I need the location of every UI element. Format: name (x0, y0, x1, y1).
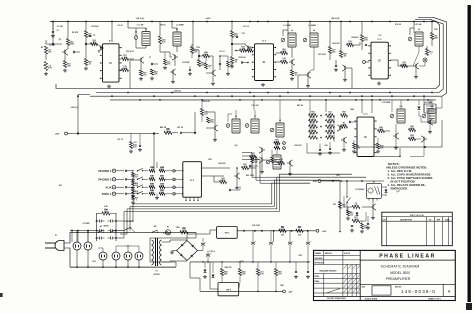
resistor R20 (281, 51, 288, 54)
svg-text:R10 4.7K: R10 4.7K (126, 50, 134, 53)
revision table (382, 212, 453, 246)
transformer T1 (195, 232, 197, 238)
wire top rail second (415, 18, 430, 20)
logo PHASE LINEAR (360, 259, 455, 261)
resistor shunt (132, 181, 135, 186)
svg-text:-20V: -20V (55, 134, 60, 136)
resistor R9 (139, 70, 142, 76)
electrolytic caps bank (251, 241, 255, 243)
wire VR2 connections (190, 262, 200, 292)
svg-text:2.2K: 2.2K (279, 161, 284, 163)
switch pole circle (173, 170, 176, 173)
svg-text:CR1-4: CR1-4 (209, 250, 214, 253)
op-amp IC3 (371, 42, 388, 79)
svg-text:.01: .01 (294, 75, 297, 77)
svg-text:L5 1.8H: L5 1.8H (415, 24, 422, 26)
resistor R40 (164, 131, 172, 134)
svg-text:C7: C7 (149, 57, 151, 59)
wire drops to matrix (325, 100, 327, 112)
svg-text:+: + (210, 253, 211, 255)
wire bridge right (198, 250, 204, 252)
wire right side loop verticals (436, 22, 440, 89)
transistor Q1 (64, 50, 66, 54)
svg-text:R14: R14 (196, 46, 199, 49)
filter cap C40 (201, 242, 205, 244)
svg-text:4-14-76: 4-14-76 (344, 252, 350, 255)
svg-text:1M: 1M (329, 125, 332, 127)
wire secondary to bridge (162, 240, 188, 242)
wire contact block right (116, 230, 124, 232)
svg-text:.047: .047 (67, 65, 71, 68)
resistor R62 (251, 157, 254, 163)
wire +24V top rail (50, 21, 436, 23)
svg-text:4.7K: 4.7K (260, 273, 265, 276)
wire jack (116, 186, 124, 188)
svg-text:R30: R30 (434, 29, 437, 31)
svg-text:L10 18MH: L10 18MH (382, 102, 391, 104)
svg-text:RELEASE STATUS: RELEASE STATUS (320, 270, 337, 273)
jack J3 (112, 186, 115, 189)
wire bridge top to VR1 (187, 230, 217, 241)
svg-text:.0047: .0047 (104, 211, 109, 214)
svg-text:220K: 220K (280, 229, 285, 231)
svg-text:C19 .047: C19 .047 (251, 104, 258, 107)
svg-text:2.2K: 2.2K (380, 148, 385, 150)
outlet SO1 (73, 242, 81, 250)
capacitor C36 (367, 222, 369, 224)
selector pins bottom (185, 197, 187, 200)
bus corners upper left (242, 153, 310, 178)
svg-text:METCH: METCH (325, 253, 332, 255)
svg-text:SW: SW (154, 226, 157, 228)
svg-text:4.7K: 4.7K (410, 127, 415, 130)
switch pole circle (173, 186, 176, 189)
resistor shunt (132, 189, 135, 194)
svg-text:1. ALL RES 1/4 W.: 1. ALL RES 1/4 W. (388, 169, 413, 173)
svg-text:PHASE LINEAR: PHASE LINEAR (379, 254, 436, 260)
svg-text:C45: C45 (298, 254, 301, 257)
resistor R86 (274, 269, 277, 276)
outlet SO5 (124, 252, 132, 260)
wires right of selector (201, 167, 230, 169)
svg-text:.01: .01 (88, 64, 91, 66)
resistor ladder b (159, 169, 165, 172)
cluster mute relay contacts (96, 213, 98, 241)
capacitor C3 (89, 34, 91, 36)
resistor R89 (296, 229, 304, 232)
trimmer C29 (422, 114, 426, 118)
bottom rail -20V (200, 290, 282, 292)
terminal -20V out (283, 290, 286, 293)
cluster relay driver right (429, 100, 431, 104)
svg-text:A: A (448, 289, 451, 293)
switch S3 power (152, 232, 153, 233)
svg-text:L6: L6 (235, 116, 237, 118)
svg-text:SO3: SO3 (92, 261, 96, 263)
wire riser to rail (78, 95, 90, 134)
op-amp IC1 (103, 44, 120, 82)
svg-text:PHONO 1: PHONO 1 (98, 169, 111, 173)
svg-text:220K: 220K (328, 130, 333, 132)
fuse F1 (165, 230, 170, 235)
svg-text:DO NOT SCALE DWG: DO NOT SCALE DWG (327, 297, 346, 300)
svg-text:R13 68K: R13 68K (182, 62, 190, 64)
svg-text:1M: 1M (124, 57, 127, 59)
svg-text:R38 2.2K: R38 2.2K (202, 101, 210, 103)
svg-text:.01: .01 (151, 169, 154, 171)
terminal +10V out (316, 229, 319, 232)
relay K1 (367, 184, 382, 199)
wires tuning cluster (130, 60, 138, 89)
cluster small rc pair (274, 142, 280, 145)
svg-text:2.2K: 2.2K (88, 36, 93, 38)
switch pole circle (173, 178, 176, 181)
svg-text:UNLESS OTHERWISE NOTED:: UNLESS OTHERWISE NOTED: (386, 166, 427, 170)
svg-text:.047: .047 (243, 165, 247, 168)
svg-text:5.6K: 5.6K (364, 40, 369, 42)
capacitor input (124, 193, 126, 195)
svg-text:TAPE 1: TAPE 1 (102, 192, 112, 196)
resistor R88 (279, 229, 287, 232)
svg-text:100K: 100K (355, 148, 360, 150)
resistor R3 (63, 61, 66, 68)
ground input ladder (156, 196, 158, 198)
svg-text:P1: P1 (55, 235, 57, 237)
resistor ladder a (149, 186, 155, 189)
svg-text:.1: .1 (136, 199, 138, 201)
resistor R15 (197, 60, 200, 67)
VR2 input wire (210, 262, 218, 289)
wire vertical x340 (339, 181, 341, 231)
cluster input filter second (85, 22, 87, 31)
svg-text:330: 330 (282, 60, 285, 62)
inductor L2 (173, 32, 181, 46)
switch S1 (98, 232, 99, 233)
cluster right of IC4 (378, 129, 385, 132)
svg-text:C41: C41 (240, 260, 243, 263)
svg-text:+24 V (L): +24 V (L) (136, 17, 145, 20)
svg-text:FINAL: FINAL (315, 280, 320, 283)
wire jack (116, 178, 124, 180)
svg-text:C12: C12 (241, 33, 244, 35)
svg-text:+24V (L): +24V (L) (173, 89, 181, 92)
svg-text:IC: IC (378, 60, 381, 63)
svg-text:330: 330 (135, 185, 138, 187)
svg-text:L4 96MH: L4 96MH (308, 24, 316, 27)
svg-text:R44: R44 (350, 108, 353, 111)
svg-text:SHEET 1 OF 1: SHEET 1 OF 1 (428, 298, 441, 300)
resistor R51 (409, 137, 416, 140)
svg-text:R47 15K: R47 15K (294, 144, 302, 147)
resistor R60 (220, 180, 227, 183)
resistor R16 (227, 61, 230, 67)
diode CR10 (385, 190, 388, 193)
resistor R50 (409, 128, 416, 131)
cluster IC3 left parts (361, 22, 363, 35)
cluster center feed (194, 112, 196, 133)
resistor R32 (401, 64, 408, 67)
svg-text:1M: 1M (343, 56, 346, 58)
svg-text:C40 1000: C40 1000 (252, 224, 260, 227)
selector IC5 (183, 162, 202, 198)
svg-text:L2 96MH: L2 96MH (176, 25, 184, 27)
svg-text:PREAMPLIFIER: PREAMPLIFIER (386, 277, 411, 281)
capacitor input (124, 170, 126, 172)
svg-text:R3 47K: R3 47K (72, 31, 79, 34)
svg-text:Q11: Q11 (234, 145, 237, 147)
svg-text:5.6K: 5.6K (150, 186, 155, 188)
wire -20V run right (321, 180, 384, 182)
svg-text:R61 100K: R61 100K (246, 175, 255, 177)
outlet SO2 (84, 242, 92, 250)
svg-text:L11 96MH: L11 96MH (424, 102, 433, 104)
resistor R14 (203, 54, 210, 57)
scan edge strip right (468, 5, 471, 302)
title block outer (314, 250, 456, 300)
svg-text:100K: 100K (253, 162, 258, 164)
capacitor C7 (150, 63, 152, 65)
transistor Q2 (140, 58, 142, 62)
wire plug to bus (64, 232, 70, 243)
svg-text:Q1: Q1 (59, 39, 61, 41)
title block divider (359, 250, 361, 300)
svg-text:330: 330 (350, 215, 353, 217)
title lower row (360, 283, 455, 285)
svg-text:+10V: +10V (322, 231, 327, 233)
svg-text:220K: 220K (434, 38, 439, 40)
wire mid return right (358, 146, 442, 148)
svg-text:PREL.: PREL. (315, 276, 321, 278)
switch contact (137, 170, 138, 171)
wire riser x274 (273, 231, 275, 241)
svg-text:1M: 1M (161, 178, 164, 180)
trimmer C22 (226, 124, 230, 128)
capacitor C26 (348, 121, 350, 123)
transistor Q20 (429, 120, 431, 124)
capacitor C9 (219, 62, 221, 64)
svg-text:CHECKED: CHECKED (315, 258, 324, 260)
svg-text:4.7K: 4.7K (221, 179, 226, 182)
svg-text:IC: IC (364, 136, 367, 139)
transistor Q5 (212, 71, 214, 75)
svg-text:.047: .047 (278, 273, 282, 276)
trimmer C18 (408, 37, 412, 41)
svg-text:2.2K: 2.2K (275, 141, 280, 143)
wire contact block left (70, 230, 97, 232)
resistor shunt (132, 195, 135, 200)
svg-text:C1: C1 (57, 30, 59, 32)
svg-text:L4: L4 (313, 29, 315, 32)
potentiometer R2 (44, 62, 47, 71)
trimmer C23 (245, 124, 249, 128)
capacitor C20 (179, 132, 181, 134)
svg-text:100K: 100K (248, 49, 253, 51)
svg-text:+24 V (R): +24 V (R) (331, 17, 340, 20)
svg-text:L7: L7 (254, 116, 256, 118)
admin columns (323, 250, 325, 264)
cluster L tuning network 1 (127, 22, 129, 29)
resistor R18 (247, 49, 253, 52)
cap C45 (295, 270, 297, 272)
power top wire (70, 231, 196, 233)
svg-text:.1: .1 (312, 136, 314, 138)
admin rows (314, 254, 361, 256)
transistor Q10 (214, 126, 216, 130)
svg-text:REVISION: REVISION (410, 215, 424, 217)
resistor ladder a (149, 178, 155, 181)
svg-text:100K: 100K (70, 44, 75, 46)
svg-text:L3: L3 (291, 30, 293, 32)
inductor relay coil (424, 104, 436, 113)
svg-text:AUX: AUX (105, 185, 111, 189)
svg-text:4.7K: 4.7K (133, 146, 138, 149)
scan speck left edge (0, 293, 3, 297)
transistor Q4 (172, 70, 174, 74)
wire jack (116, 193, 124, 195)
svg-text:100K: 100K (209, 122, 214, 124)
wire left vertical (52, 22, 54, 45)
resistor R11b (164, 59, 167, 65)
trimmer C13 (281, 38, 285, 42)
svg-text:.0047: .0047 (134, 192, 139, 195)
svg-text:MODEL 3000: MODEL 3000 (390, 271, 410, 275)
transistor Q7 (307, 73, 309, 77)
svg-text:R80: R80 (176, 227, 179, 229)
mid band extra parts (353, 143, 356, 149)
zener CR6 (212, 275, 215, 278)
capacitor C8b (189, 68, 191, 70)
capacitor C35 (351, 224, 353, 226)
svg-text:+: + (205, 242, 206, 244)
svg-text:.1: .1 (299, 229, 301, 231)
wire down from loop right (436, 96, 442, 108)
node dots top rail (52, 21, 54, 23)
op-amp IC4 (357, 117, 374, 156)
svg-text:SIZE: SIZE (362, 286, 365, 288)
capacitor C2 (72, 51, 74, 53)
resistor R84 (238, 269, 241, 276)
svg-text:C21 10: C21 10 (117, 139, 123, 141)
resistor ladder b (159, 192, 165, 195)
resistor R8 (158, 36, 161, 44)
svg-text:VR 1: VR 1 (225, 233, 231, 235)
capacitor C10 (240, 61, 242, 63)
transistor Q6 (291, 60, 293, 64)
capacitor C1 (52, 30, 54, 32)
capacitor input (124, 186, 126, 188)
svg-text:115/230: 115/230 (153, 274, 159, 276)
svg-text:R1 1M: R1 1M (49, 45, 55, 47)
resistor R70 (338, 202, 341, 209)
svg-text:C3: C3 (93, 35, 95, 37)
cap C46 (307, 270, 309, 272)
svg-text:R42 1K: R42 1K (297, 104, 304, 107)
diode CR11 (356, 213, 359, 216)
resistor R11 (150, 69, 153, 75)
svg-text:3. ALL PUSH SWITCHES SHOWN: 3. ALL PUSH SWITCHES SHOWN (388, 176, 433, 180)
resistor R71 (352, 205, 360, 208)
wire outlets feed (116, 245, 139, 247)
svg-text:+24 V: +24 V (205, 17, 211, 20)
svg-text:.01: .01 (343, 114, 346, 116)
svg-text:R22 10K: R22 10K (332, 43, 340, 45)
svg-text:C26: C26 (324, 145, 327, 147)
svg-text:F1 2A: F1 2A (164, 232, 170, 235)
resistor R6 (91, 42, 98, 45)
svg-text:IC: IC (110, 62, 113, 65)
svg-text:100K: 100K (251, 155, 256, 157)
resistor ladder b (159, 186, 165, 189)
capacitor C30 (228, 189, 230, 191)
svg-text:+24V (L): +24V (L) (70, 106, 77, 109)
svg-text:.01: .01 (342, 207, 345, 209)
svg-text:R70: R70 (333, 204, 336, 206)
wire jack (116, 170, 124, 172)
inductor L1 (142, 32, 150, 46)
resistor R30 (430, 33, 433, 40)
transistor Q8 (344, 66, 346, 70)
resistor R72 (347, 210, 350, 216)
svg-text:NOTES:: NOTES: (388, 162, 400, 166)
svg-text:2. ALL CAPS IN MICROFARADS: 2. ALL CAPS IN MICROFARADS (388, 173, 431, 177)
power bottom wire (70, 266, 176, 268)
transistor Q13 (343, 138, 345, 142)
resistor R85 (256, 269, 259, 276)
resistor R74 (361, 223, 364, 229)
cluster below IC2 output stage (261, 158, 263, 162)
svg-text:330: 330 (328, 119, 331, 121)
svg-text:.047: .047 (410, 136, 414, 139)
svg-text:.1: .1 (209, 68, 211, 70)
outlet SO3 (99, 252, 107, 260)
resistor R73 (352, 219, 360, 222)
svg-text:300: 300 (298, 235, 301, 237)
regulator VR2 (218, 283, 239, 296)
svg-text:S1: S1 (100, 226, 102, 228)
svg-text:Q17: Q17 (396, 191, 399, 193)
diode CR8 (418, 107, 421, 110)
svg-text:+: + (255, 241, 256, 243)
svg-text:5.6K: 5.6K (311, 130, 316, 132)
svg-text:PHONO 2: PHONO 2 (98, 177, 111, 181)
svg-text:IN OUT POSITION: IN OUT POSITION (391, 180, 415, 184)
transistor Q15 (423, 137, 425, 141)
svg-text:-20V: -20V (312, 181, 317, 183)
svg-text:.0047: .0047 (348, 42, 353, 45)
transistor Q11 (261, 148, 263, 152)
cluster mid resistors to IC1 out (122, 57, 129, 60)
resistor R61 (242, 166, 249, 169)
jack J1 (112, 169, 115, 172)
zener CR5 (204, 270, 207, 273)
svg-text:R21 5.6K: R21 5.6K (318, 54, 326, 56)
svg-text:5.6K: 5.6K (204, 54, 209, 56)
svg-text:C20 .02: C20 .02 (177, 127, 183, 129)
svg-text:C18 .02: C18 .02 (395, 24, 401, 26)
svg-text:2.2K: 2.2K (311, 114, 316, 116)
switch contact (137, 187, 138, 188)
svg-text:F1: F1 (167, 227, 169, 229)
svg-text:DESCRIPTION: DESCRIPTION (400, 219, 412, 221)
resistor ladder a (149, 192, 155, 195)
inductor L7 (251, 119, 259, 133)
resistor R1 (45, 40, 47, 44)
filter cap C41 (206, 253, 210, 255)
wire lower return (366, 148, 400, 156)
outlet SO4 (112, 252, 120, 260)
svg-text:4.7K: 4.7K (167, 63, 172, 66)
resistors right of IC2 (328, 47, 331, 54)
